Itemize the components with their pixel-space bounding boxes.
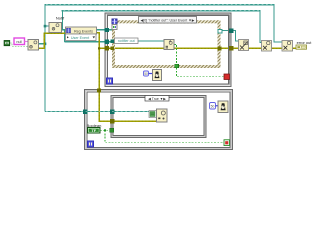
svg-text:◀ True ▼▶: ◀ True ▼▶ xyxy=(148,97,167,101)
svg-text:User Event: User Event xyxy=(71,36,89,40)
svg-text:null: null xyxy=(16,40,22,44)
svg-text:Reg Events: Reg Events xyxy=(74,30,93,34)
svg-text:error out: error out xyxy=(297,40,313,45)
svg-text:50: 50 xyxy=(211,104,215,108)
svg-text:50: 50 xyxy=(144,72,148,76)
svg-text:◀[0] "notifier out": User Even: ◀[0] "notifier out": User Event ▼▶ xyxy=(141,18,196,22)
svg-text:notifier out: notifier out xyxy=(118,39,135,43)
svg-text:Notif: Notif xyxy=(56,16,65,21)
svg-text:TF: TF xyxy=(91,129,96,133)
